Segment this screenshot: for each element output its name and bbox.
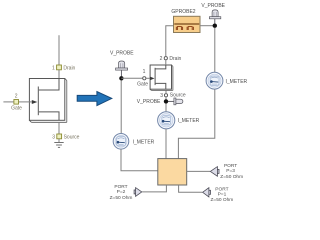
svg-text:Source: Source [170,93,186,99]
svg-text:I_METER: I_METER [226,79,248,85]
svg-text:3: 3 [52,135,55,141]
transistor U1 (middle FET subcircuit) [150,65,173,90]
ammeter I_METER (right) [206,72,247,89]
svg-text:I_METER: I_METER [178,118,200,124]
svg-text:V_PROBE: V_PROBE [137,99,161,105]
svg-text:1: 1 [52,66,55,72]
svg-text:Gate: Gate [11,106,22,112]
V_PROBE (gate) [110,51,134,77]
GPROBE2 [171,9,200,32]
wire [165,60,167,65]
svg-text:Z=50 Ohm: Z=50 Ohm [110,195,133,201]
svg-text:Z=50 Ohm: Z=50 Ohm [211,197,234,203]
wire [214,28,216,72]
svg-text:3: 3 [160,93,163,99]
svg-text:V_PROBE: V_PROBE [201,3,225,9]
wire [3,101,14,103]
wire [166,26,174,57]
node: source junction [164,99,168,103]
wire [121,149,158,171]
svg-text:PORT: PORT [224,163,237,169]
svg-text:P=3: P=3 [226,168,235,174]
svg-text:Source: Source [64,135,80,141]
port P3 [210,163,243,180]
pin 3 Source (middle FET) [160,93,186,99]
port P1 [203,187,234,203]
ammeter I_METER (middle) [158,112,200,129]
svg-text:Gate: Gate [137,81,148,87]
pin 1 Drain [52,65,76,72]
ammeter I_METER (left) [113,134,154,150]
wire [58,35,60,65]
wire [179,185,203,192]
pin 2 Drain (middle FET) [160,56,182,62]
wire [58,139,60,143]
wire [165,129,167,159]
wire [142,185,166,192]
svg-text:Z=50 Ohm: Z=50 Ohm [220,174,243,180]
svg-text:V_PROBE: V_PROBE [110,51,134,57]
svg-text:P=2: P=2 [117,189,126,195]
pin 2 Gate [11,93,22,111]
node: gate junction [119,76,123,80]
subcircuit block (orange box) [158,159,187,185]
wire [121,77,142,79]
wire [120,81,122,134]
node: drain junction [213,24,217,28]
V_PROBE (drain, top right) [201,3,225,24]
V_PROBE (source) [137,98,183,105]
wire [165,104,167,112]
svg-text:I_METER: I_METER [133,140,155,146]
wire [178,89,214,158]
svg-text:2: 2 [160,56,163,62]
svg-text:P=1: P=1 [218,191,227,197]
wire [187,170,210,172]
ground [54,143,63,148]
svg-text:2: 2 [15,93,18,99]
wire [58,122,60,134]
wire [165,97,167,100]
pin 3 Source [52,134,79,141]
svg-text:Drain: Drain [169,56,181,62]
port P2 [110,184,142,201]
annotation arrow [77,92,112,106]
svg-text:1: 1 [143,69,146,75]
pin 1 Gate (middle FET) [137,69,148,87]
svg-text:GPROBE2: GPROBE2 [171,9,195,15]
svg-text:Drain: Drain [63,66,75,72]
wire [146,77,150,79]
subcircuit device (FET symbol, left) [18,79,66,123]
wire [200,25,215,27]
wire [58,70,60,79]
wire [165,90,167,93]
